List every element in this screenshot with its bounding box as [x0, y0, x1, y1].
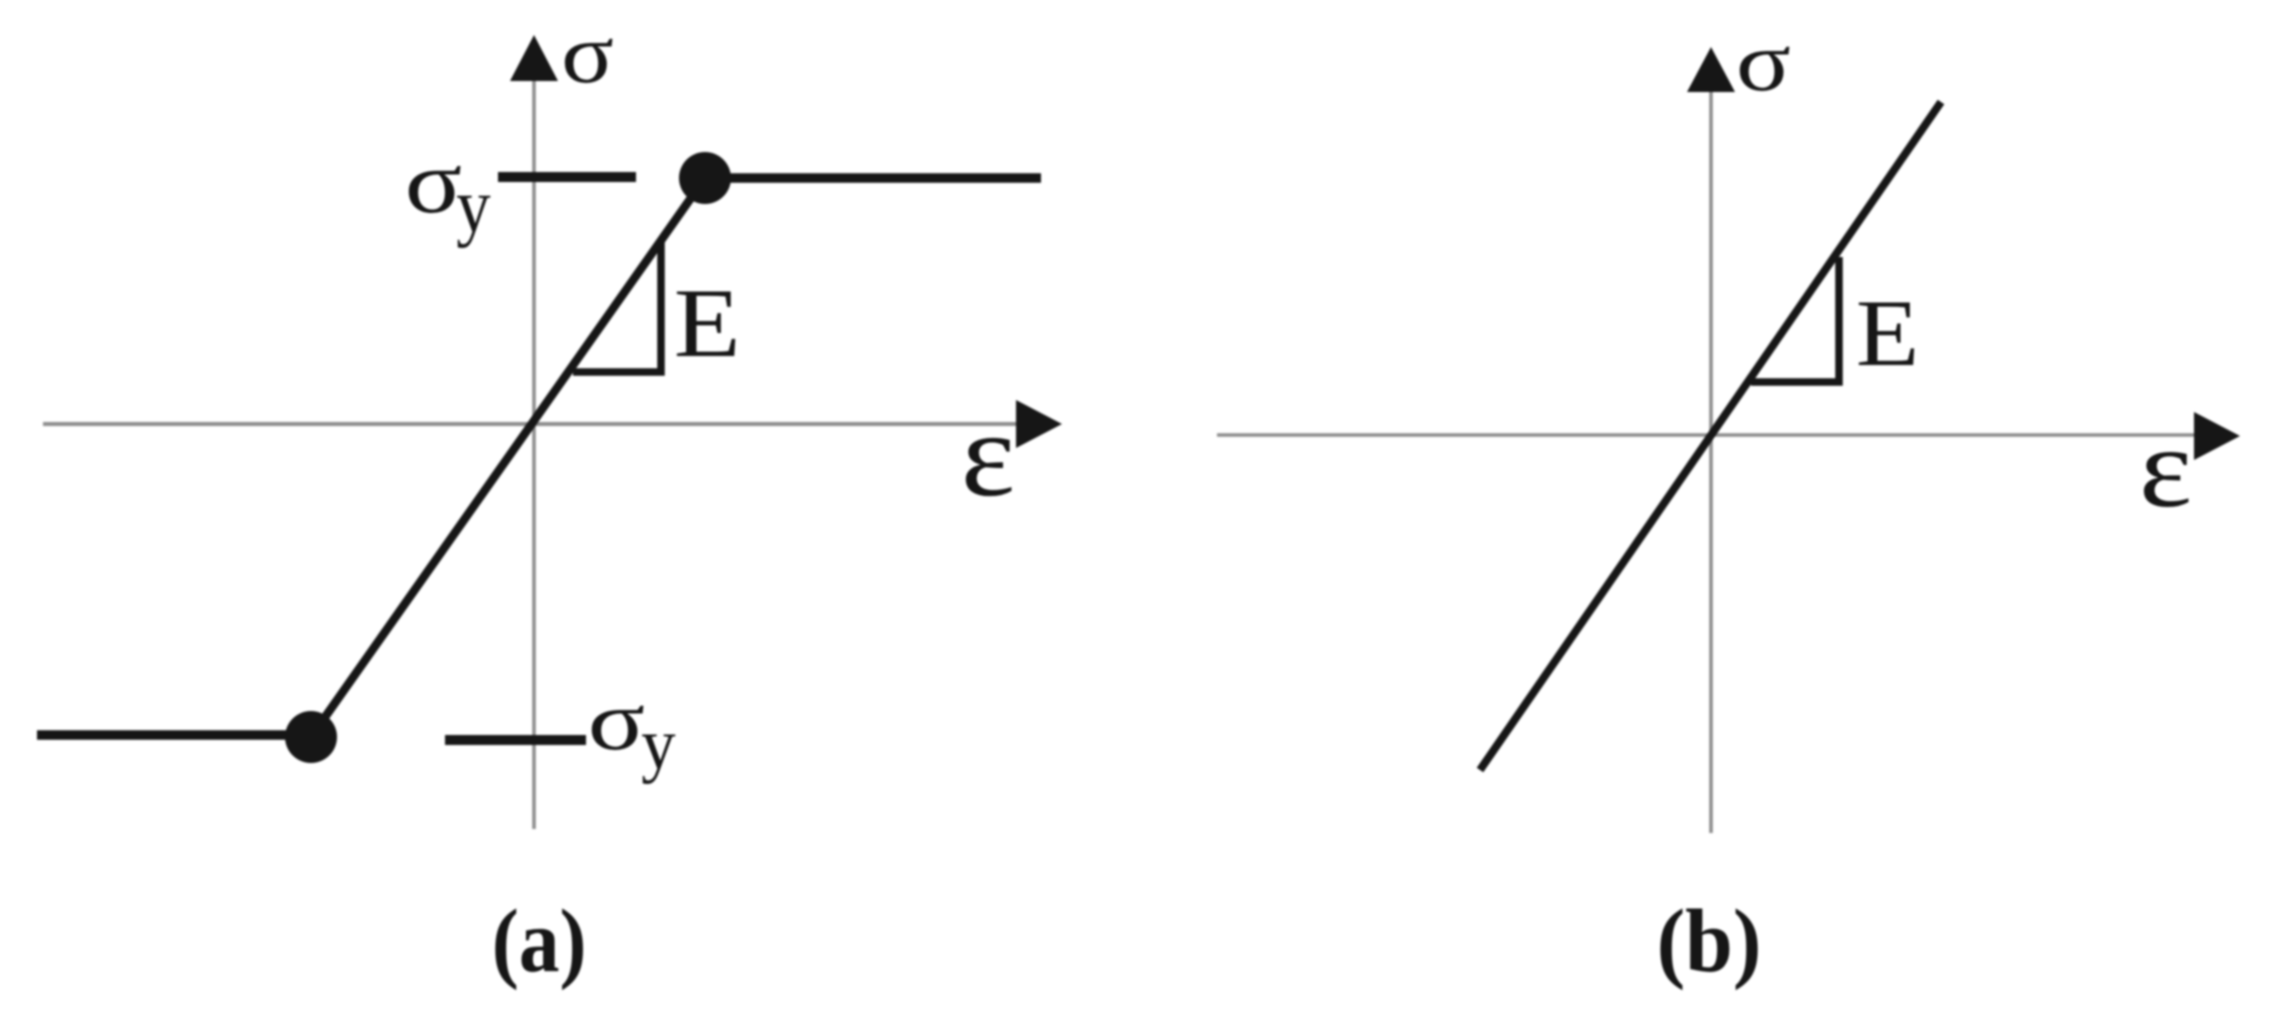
stress axis arrowhead (a) [510, 35, 558, 81]
lower plastic plateau at -sigma_y (a) [37, 730, 311, 740]
svg-text:y: y [641, 705, 676, 785]
svg-text:σ: σ [1736, 16, 1791, 109]
linear elastic line through origin (b) [1480, 102, 1941, 770]
svg-text:y: y [456, 163, 491, 249]
tick mark at -sigma_y on stress axis (a) [445, 735, 586, 745]
svg-text:(a): (a) [492, 891, 587, 991]
strain axis (b): horizontal gray axis line [1217, 433, 2198, 437]
svg-text:σ: σ [561, 7, 614, 100]
svg-text:σ: σ [405, 132, 462, 232]
stress axis (b): vertical gray axis line [1709, 90, 1713, 833]
svg-text:σ: σ [588, 673, 645, 767]
svg-text:ε: ε [2139, 404, 2192, 531]
svg-text:(b): (b) [1657, 892, 1762, 991]
lower yield point: filled circle (a) [285, 711, 337, 763]
strain axis (a): horizontal gray axis line [43, 422, 1020, 426]
svg-text:ε: ε [961, 388, 1015, 522]
svg-text:E: E [674, 268, 741, 378]
stress axis (a): vertical gray axis line [532, 79, 536, 829]
upper yield point: filled circle (a) [679, 152, 731, 204]
upper plastic plateau at +sigma_y (a) [705, 173, 1041, 183]
slope indicator triangle for modulus E (a) [573, 240, 661, 372]
strain axis arrowhead (a) [1016, 400, 1062, 448]
stress axis arrowhead (b) [1687, 47, 1735, 92]
svg-text:E: E [1856, 280, 1919, 386]
slope indicator triangle for modulus E (b) [1751, 257, 1839, 382]
tick mark at +sigma_y on stress axis (a) [498, 172, 636, 182]
strain axis arrowhead (b) [2194, 412, 2240, 460]
elastic branch: diagonal line through origin (a) [311, 178, 705, 737]
